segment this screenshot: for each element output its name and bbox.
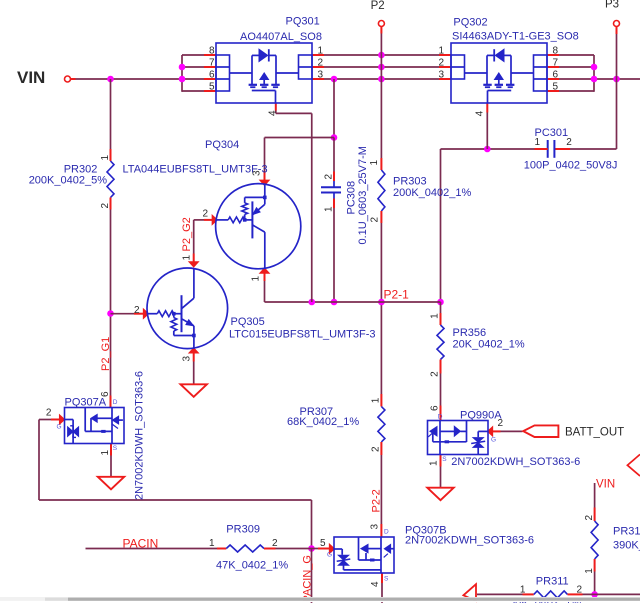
svg-text:PR302: PR302 (64, 163, 98, 175)
svg-text:G: G (57, 424, 62, 431)
svg-text:SI4463ADY-T1-GE3_SO8: SI4463ADY-T1-GE3_SO8 (452, 31, 579, 43)
svg-text:2: 2 (577, 585, 583, 596)
svg-text:68K_0402_1%: 68K_0402_1% (287, 416, 359, 428)
svg-text:100P_0402_50V8J: 100P_0402_50V8J (524, 159, 618, 171)
svg-text:7: 7 (553, 58, 559, 69)
svg-text:PQ302: PQ302 (453, 17, 487, 29)
svg-text:6: 6 (100, 391, 111, 397)
svg-text:2N7002KDWH_SOT363-6: 2N7002KDWH_SOT363-6 (134, 371, 146, 500)
svg-text:G: G (491, 437, 496, 444)
svg-text:1: 1 (182, 255, 193, 261)
svg-text:AO4407AL_SO8: AO4407AL_SO8 (240, 31, 322, 43)
svg-text:D: D (113, 399, 118, 406)
svg-text:2: 2 (370, 217, 381, 223)
svg-text:1: 1 (318, 46, 324, 57)
svg-text:4: 4 (268, 110, 279, 116)
svg-text:2: 2 (100, 203, 111, 209)
svg-text:3: 3 (318, 70, 324, 81)
svg-text:2: 2 (318, 58, 324, 69)
svg-text:1: 1 (438, 46, 444, 57)
svg-text:200K_0402_5%: 200K_0402_5% (29, 175, 108, 187)
svg-text:1: 1 (429, 460, 440, 466)
svg-text:LTA044EUBFS8TL_UMT3F-3: LTA044EUBFS8TL_UMT3F-3 (123, 164, 268, 176)
svg-text:PQ304: PQ304 (205, 139, 239, 151)
svg-text:1: 1 (209, 538, 215, 549)
svg-text:8: 8 (553, 46, 559, 57)
svg-text:S: S (384, 576, 389, 583)
svg-text:D: D (384, 529, 389, 536)
svg-text:1: 1 (251, 276, 262, 282)
svg-text:P3: P3 (605, 0, 619, 11)
svg-text:PACIN_G: PACIN_G (302, 555, 314, 602)
svg-text:5: 5 (320, 538, 326, 549)
svg-text:3: 3 (369, 524, 380, 530)
svg-text:2: 2 (46, 408, 52, 419)
svg-text:PR309: PR309 (226, 524, 260, 536)
svg-text:1: 1 (371, 397, 382, 403)
svg-text:PC308: PC308 (346, 181, 358, 215)
svg-text:2: 2 (430, 371, 441, 377)
svg-text:2: 2 (498, 418, 504, 429)
svg-text:2: 2 (438, 58, 444, 69)
svg-text:P2_G2: P2_G2 (181, 217, 193, 251)
svg-text:1: 1 (520, 585, 526, 596)
svg-text:S: S (113, 445, 118, 452)
svg-text:1: 1 (369, 160, 380, 166)
svg-text:S: S (442, 456, 447, 463)
svg-text:6: 6 (209, 70, 215, 81)
svg-text:PQ990A: PQ990A (460, 410, 502, 422)
svg-text:2: 2 (272, 538, 278, 549)
svg-text:2N7002KDWH_SOT363-6: 2N7002KDWH_SOT363-6 (405, 535, 534, 547)
svg-text:4: 4 (475, 110, 486, 116)
svg-text:2: 2 (584, 515, 595, 521)
svg-text:3: 3 (182, 356, 193, 362)
svg-text:1: 1 (534, 137, 540, 148)
svg-text:6: 6 (430, 405, 441, 411)
svg-text:8: 8 (209, 46, 215, 57)
svg-text:1: 1 (323, 206, 334, 212)
svg-text:BATT_OUT: BATT_OUT (565, 426, 624, 438)
svg-text:PR356: PR356 (453, 327, 487, 339)
svg-text:1: 1 (100, 155, 111, 161)
svg-text:3: 3 (438, 70, 444, 81)
svg-text:P2_G1: P2_G1 (100, 337, 112, 371)
svg-text:47K_0402_1%: 47K_0402_1% (216, 560, 288, 572)
svg-text:2N7002KDWH_SOT363-6: 2N7002KDWH_SOT363-6 (451, 456, 580, 468)
svg-text:1: 1 (584, 568, 595, 574)
svg-text:2: 2 (566, 137, 572, 148)
svg-text:4: 4 (370, 581, 381, 587)
svg-text:P2-2: P2-2 (370, 489, 382, 512)
svg-text:6: 6 (553, 70, 559, 81)
svg-text:20K_0402_1%: 20K_0402_1% (453, 339, 525, 351)
svg-text:D: D (438, 414, 443, 421)
svg-text:PR311: PR311 (536, 576, 569, 588)
svg-text:5: 5 (553, 82, 559, 93)
svg-text:G: G (327, 552, 332, 559)
svg-text:2: 2 (134, 305, 140, 316)
svg-text:P2: P2 (371, 0, 385, 12)
svg-text:200K_0402_1%: 200K_0402_1% (393, 187, 472, 199)
svg-text:LTC015EUBFS8TL_UMT3F-3: LTC015EUBFS8TL_UMT3F-3 (229, 328, 376, 340)
svg-text:VIN: VIN (596, 479, 615, 491)
svg-text:PR310: PR310 (613, 526, 640, 538)
svg-text:PQ301: PQ301 (286, 16, 320, 28)
svg-text:PACIN: PACIN (123, 537, 159, 551)
svg-text:7: 7 (209, 58, 215, 69)
svg-text:PQ305: PQ305 (231, 316, 265, 328)
svg-text:P2-1: P2-1 (384, 288, 410, 302)
svg-text:5: 5 (209, 82, 215, 93)
svg-text:2: 2 (323, 174, 334, 180)
svg-text:390K_0402_1%: 390K_0402_1% (613, 540, 640, 552)
svg-text:VIN: VIN (17, 68, 45, 87)
svg-text:PR303: PR303 (393, 176, 427, 188)
svg-text:3: 3 (252, 170, 263, 176)
svg-text:1: 1 (430, 313, 441, 319)
svg-text:1: 1 (100, 450, 111, 456)
svg-text:PQ307A: PQ307A (65, 397, 107, 409)
svg-text:2: 2 (203, 209, 209, 220)
svg-text:2: 2 (371, 446, 382, 452)
svg-text:0.1U_0603_25V7-M: 0.1U_0603_25V7-M (357, 146, 369, 244)
